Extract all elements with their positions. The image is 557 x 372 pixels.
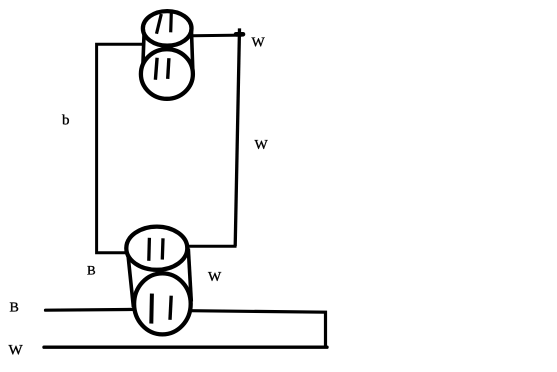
- wire: left hot loop from top receptacle to bottom receptacle (labeled b): [97, 44, 144, 252]
- receptacle R1 bottom face: [141, 49, 193, 99]
- receptacle R1 bottom face slots: [155, 58, 157, 80]
- svg-text:b: b: [62, 112, 70, 128]
- svg-text:B: B: [87, 263, 96, 278]
- wire: right vertical neutral run (labeled W): [235, 28, 239, 246]
- svg-text:W: W: [208, 270, 222, 285]
- receptacle R2 bottom face slots: [149, 294, 154, 324]
- wire: top right horizontal from top receptacle to W corner: [192, 34, 242, 38]
- wire: bottom horizontal from right vertical to bottom receptacle: [187, 245, 237, 248]
- receptacle R2 top face slots: [147, 238, 151, 261]
- svg-text:B: B: [10, 301, 19, 316]
- svg-text:W: W: [9, 342, 24, 358]
- receptacle R2 bottom face: [134, 273, 191, 334]
- receptacle R1 top face slots: [157, 14, 162, 34]
- receptacle R2 top face: [126, 227, 187, 270]
- svg-text:W: W: [255, 138, 269, 153]
- wire: feeder B line left segment: [46, 308, 136, 312]
- wire: feeder B line right segment with drop to W line: [191, 311, 326, 346]
- receptacle R1 (top duplex outlet) body side lines: [143, 27, 145, 73]
- svg-text:W: W: [252, 36, 266, 51]
- wire: feeder W line bottom: [44, 346, 327, 349]
- receptacle R2 (bottom duplex outlet) body side lines: [128, 252, 134, 307]
- junction blob at W corner: [236, 32, 243, 37]
- receptacle R1 top face: [143, 11, 192, 46]
